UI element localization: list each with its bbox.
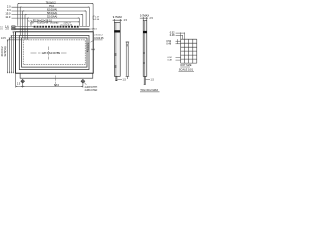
side view 1 body [114, 22, 120, 76]
label SCALE 10/1 [179, 68, 194, 72]
side view 1 pin [115, 76, 117, 80]
side view 1 top dim line [113, 19, 122, 22]
label 1.27 pad row [30, 23, 35, 25]
rotated label 32.6 VA [3, 46, 7, 56]
label 4-o6.0 PAD [85, 89, 98, 92]
center line vertical dashes [48, 47, 50, 60]
VA rectangle [22, 38, 88, 67]
svg-text:4-Ø3.5 PTH: 4-Ø3.5 PTH [85, 86, 98, 89]
pin pad row [34, 26, 79, 28]
AA rectangle dashed [23, 40, 85, 65]
side view 2 body [143, 21, 147, 77]
dot grid bottom-left ticks [176, 58, 181, 61]
label 58.0(AA) [47, 11, 57, 15]
label 11.0 left of L5 [5, 15, 10, 19]
dimension line 75.0 (top L2) [12, 7, 90, 36]
corner pad labels 1.6 / 2.0 [5, 24, 9, 28]
left dim chain line 1 [13, 32, 16, 73]
side view 2 top dim line [140, 17, 148, 21]
left dim chain line 3 [9, 38, 22, 73]
svg-text:2.54±0.2: 2.54±0.2 [94, 35, 103, 37]
svg-text:2.0: 2.0 [0, 29, 3, 31]
label 2.0 left of L2 [7, 4, 11, 8]
label 1.27 left of L6 [28, 20, 33, 22]
label 1.5 under side view 2 [151, 79, 155, 82]
svg-text:2-1.27=2.54: 2-1.27=2.54 [60, 24, 73, 26]
label 75.0 [49, 4, 55, 8]
rotated label 40.0 inside right edge [87, 42, 90, 52]
label 62.0(VA) [47, 8, 57, 12]
svg-text:2-Ø1.6: 2-Ø1.6 [90, 28, 97, 30]
label 0.6±0.05 with underline leader [94, 37, 104, 40]
elastomer bar between side views [126, 42, 128, 76]
label 2.5 bottom [17, 83, 21, 86]
backlight tab bottom-right [20, 73, 93, 78]
label 0.4 left of L3 [7, 8, 11, 12]
svg-text:0.48: 0.48 [170, 34, 175, 37]
dot pitch tick lines left [176, 39, 181, 44]
dimension line 78.0 (top L1) [18, 3, 93, 32]
svg-text:13.5: 13.5 [1, 37, 6, 40]
svg-text:20-Ø1.0PTH: 20-Ø1.0PTH [37, 23, 49, 25]
label 15.0 left of L4 [5, 12, 11, 16]
svg-text:1.0: 1.0 [0, 26, 3, 28]
dim drop extensions into body [20, 32, 27, 40]
label 2-o1.27 pad row [64, 23, 72, 25]
label 52.0(AA) [47, 15, 57, 19]
mounting hole bottom-left [21, 79, 25, 83]
small tick dim right edge [92, 49, 95, 51]
dimension line 58.0 AA (top L4) [12, 14, 83, 40]
side view 2 pin [144, 76, 146, 84]
label 78.0±0.2 [46, 0, 57, 4]
label 2-o1.6 right of rail [90, 28, 97, 30]
label 13.5 top-left of chain [1, 37, 6, 40]
label 2.5 beside side view 1 [124, 19, 128, 22]
side view 1 top label 9.7MAX [113, 15, 122, 19]
label 1.5 under side view 1 [123, 78, 127, 81]
label 1.27 small right [95, 17, 100, 19]
label 68.0 bottom [54, 83, 60, 87]
label 20-o1.0PTH pad row [37, 23, 49, 25]
corner pads top-left [12, 26, 15, 30]
elastomer bar dark segment [126, 44, 128, 46]
scale underline [140, 91, 160, 93]
center line horizontal dashes [31, 52, 67, 54]
svg-text:40.0±0.2: 40.0±0.2 [87, 42, 90, 52]
elastomer bar ticks [126, 42, 130, 79]
left dim chain line 2 [11, 36, 20, 74]
dimension line 62.0 VA (top L3) [12, 11, 87, 38]
dot grid bottom-left labels [168, 57, 173, 59]
bezel rectangle [19, 36, 89, 70]
label DOT SIZE [181, 64, 192, 67]
scale 10/1 underline [179, 71, 195, 73]
label 2.54 small right [95, 19, 100, 21]
dimension line pin pitch (top L6) [31, 21, 79, 25]
dot size underline [180, 66, 190, 68]
label 4-o3.5 PTH [85, 86, 98, 89]
leader for hole callout [84, 82, 86, 85]
label P2.54x15=38.10 [33, 19, 53, 23]
bottom dimension line [16, 73, 83, 87]
label 2.54 right of body corner [94, 35, 103, 37]
pin one callout cluster right [93, 16, 95, 19]
dot detail grid [181, 39, 197, 63]
svg-text:4-Ø6.0 PAD: 4-Ø6.0 PAD [85, 89, 98, 92]
label P1.27 above pad row right [60, 24, 73, 26]
dot pitch labels top [170, 32, 175, 35]
left dim chain line 4 [7, 40, 23, 73]
label o1.6PAD pad row [50, 22, 59, 25]
dot pitch tick lines top [176, 32, 185, 39]
mounting hole bottom-right [81, 79, 85, 83]
dimension line 52.0 (top L5) [12, 18, 80, 40]
body outer rectangle [16, 32, 94, 73]
svg-text:DOT SIZE: DOT SIZE [181, 64, 192, 67]
rotated label 40.0 [0, 46, 4, 57]
center line extension to bottom dim [55, 76, 57, 87]
pad rail double line [16, 28, 90, 29]
label 0.6 beside side view 2 [150, 17, 154, 20]
dot pitch labels left [166, 40, 171, 43]
label 1.0 far left edge [0, 26, 3, 28]
label 128 X 64 DOTS [42, 51, 61, 55]
side view 2 top label 3.8MAX [140, 13, 149, 17]
pin row top edge line [16, 25, 90, 27]
svg-text:0.48: 0.48 [166, 42, 171, 45]
label SCALE 2/1 [140, 88, 158, 92]
